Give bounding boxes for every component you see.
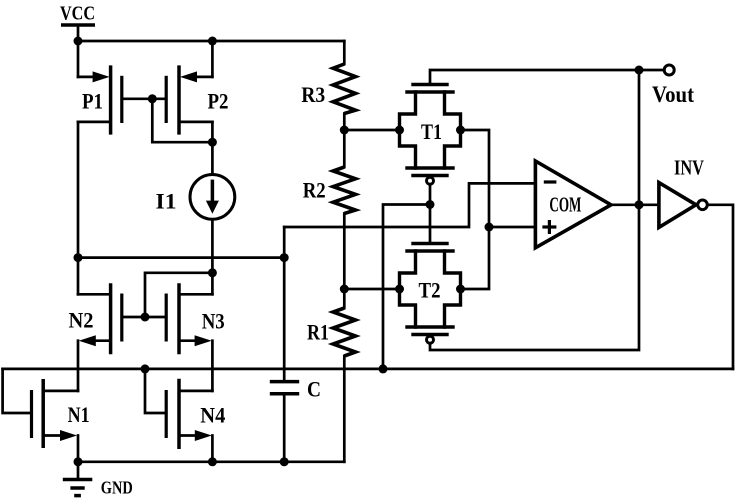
wire T2 bubble to Vout rail (430, 70, 639, 350)
svg-text:R1: R1 (307, 320, 329, 345)
wire ctrl to long line (383, 205, 430, 369)
wire P1-P2 gate tie (122, 97, 166, 100)
junction T2 right port (456, 285, 465, 294)
svg-text:P1: P1 (82, 89, 103, 114)
junction COM out tee (635, 200, 644, 209)
junction P2 drain (208, 138, 217, 147)
junction Vout tee (635, 66, 644, 75)
svg-text:N3: N3 (202, 309, 225, 334)
transistor N3 (166, 283, 212, 354)
junction I1 gate feed (208, 268, 217, 277)
wire I1 bottom (211, 219, 214, 294)
resistor R2 (333, 130, 355, 289)
wire T1 top gate to Vout rail (430, 70, 639, 85)
ground symbol (63, 462, 93, 496)
svg-text:GND: GND (101, 478, 133, 498)
power symbol VCC (61, 25, 95, 41)
transistor N2 (78, 283, 122, 354)
wire COM output (611, 203, 659, 206)
resistor R1 (333, 289, 355, 462)
junction C gnd (280, 457, 289, 466)
junction R3 tap (340, 126, 349, 135)
resistor R3 (333, 41, 355, 130)
junction gate tie (148, 94, 157, 103)
wire P2 drain down (211, 122, 214, 175)
svg-text:C: C (307, 376, 321, 401)
svg-text:R2: R2 (303, 178, 326, 203)
op-amp COM (535, 161, 611, 248)
junction N1 source gnd (74, 457, 83, 466)
svg-text:N1: N1 (68, 402, 90, 427)
junction T1 left port (395, 126, 404, 135)
junction T2 left port (395, 285, 404, 294)
svg-text:N2: N2 (69, 308, 94, 333)
junction VCC-P1 (74, 37, 83, 46)
inverter INV (659, 183, 707, 228)
transmission gate T1 (400, 85, 461, 185)
wire ground rail (78, 460, 344, 463)
wire N2 source to N1 drain (77, 341, 80, 391)
wire INV output to long line (707, 205, 733, 369)
transistor N4 (166, 379, 212, 462)
svg-text:I1: I1 (156, 189, 177, 214)
wire mirror link (78, 256, 284, 259)
svg-text:VCC: VCC (60, 3, 95, 25)
wire T1 bubble to T2 top gate (429, 184, 432, 243)
junction N4 gate tee (141, 364, 150, 373)
junction N4 source gnd (208, 457, 217, 466)
terminal Vout (664, 65, 674, 75)
junction VCC-P2 (208, 37, 217, 46)
transistor P1 (78, 41, 122, 135)
junction threshold node (485, 223, 494, 232)
wire to Vout terminal (639, 69, 664, 72)
svg-text:R3: R3 (301, 82, 325, 107)
wire threshold to comparator plus (489, 226, 535, 229)
svg-text:INV: INV (674, 156, 704, 180)
wire VCC top rail (78, 40, 344, 43)
wire to N4 gate (145, 369, 166, 413)
svg-text:P2: P2 (208, 89, 229, 114)
junction T1 right port (456, 126, 465, 135)
wire P1 drain to N2 drain (77, 122, 80, 294)
junction N2 N3 gate (141, 313, 150, 322)
transistor N1 (32, 379, 79, 462)
svg-text:COM: COM (549, 193, 581, 217)
transistor P2 (166, 41, 212, 135)
wire ramp node to comparator minus (284, 183, 535, 227)
junction mirror right (280, 253, 289, 262)
svg-text:Vout: Vout (652, 82, 694, 107)
wire gate to P2 drain (152, 99, 212, 142)
junction ctrl tee (426, 200, 435, 209)
wire R3 tap to T1 (344, 129, 399, 132)
wire long gate line (3, 368, 733, 371)
svg-text:T1: T1 (421, 119, 442, 144)
svg-text:N4: N4 (200, 403, 225, 428)
wire long line to N1 gate (3, 369, 32, 413)
svg-text:T2: T2 (419, 278, 441, 303)
wire N3 source to N4 drain (211, 341, 214, 391)
junction R2 R1 tap (340, 285, 349, 294)
capacitor C (270, 227, 299, 462)
wire T2 right port up (461, 227, 490, 289)
wire N2 N3 gate tie (122, 316, 166, 319)
junction ctrl long line (379, 364, 388, 373)
wire gate feed to N2 N3 gates (145, 273, 212, 317)
wire T1 right port down (461, 130, 490, 227)
junction mirror left (74, 253, 83, 262)
transmission gate T2 (400, 244, 461, 344)
current source I1 (190, 175, 235, 220)
wire R2R1 tap to T2 (344, 288, 399, 291)
